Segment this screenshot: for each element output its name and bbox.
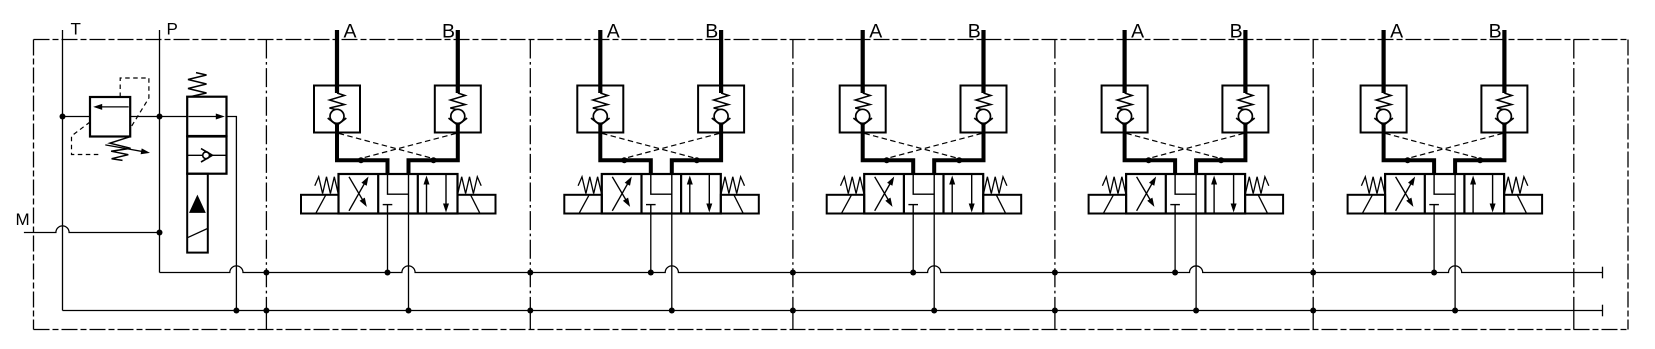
wire: tank rail (from T) (63, 310, 1603, 312)
junction: interface 2 on T-rail (527, 308, 533, 314)
pilot line (dashed) B1 to A side (361, 133, 456, 158)
shock valve A2 spring (593, 93, 608, 110)
pilot line (dashed) B2 to A side (625, 133, 720, 158)
shock valve A3 spring (855, 93, 870, 110)
DV3 left solenoid slash (842, 195, 852, 213)
shock valve B4 body (1222, 86, 1268, 133)
junction: interface 1 on T-rail (263, 308, 269, 314)
DV4 left solenoid slash (1103, 195, 1113, 213)
DV1 left return spring (315, 177, 338, 194)
wire: B3 channel to valve (thick) (934, 124, 983, 175)
unloader U1 body (position box) (187, 97, 226, 136)
pilot line (dashed) A3 to B side (864, 133, 958, 158)
section interface line 2 (dash-dot) (529, 40, 531, 311)
shock valve B5 poppet ball (1497, 109, 1511, 123)
svg-text:P: P (167, 19, 178, 38)
DV5 position divider right (1463, 174, 1465, 214)
DV3 crossed-flow position arrows (875, 182, 892, 211)
junction: interface 5 on P-rail (1310, 270, 1316, 276)
DV4 right solenoid slash (1258, 195, 1267, 213)
shock valve A4 body (1102, 86, 1148, 133)
junction: DV2 feed on pressure rail (648, 270, 654, 276)
section interface line 3 (dash-dot) (792, 40, 794, 311)
DV5 parallel-flow position arrows (1472, 182, 1474, 214)
shock valve A3 seat (853, 118, 872, 125)
port A line (section 3) (861, 30, 865, 93)
port B line (section 3) (981, 30, 985, 93)
DV4 right solenoid box (1245, 195, 1283, 214)
DV1 right solenoid box (458, 195, 496, 214)
svg-text:A: A (1390, 21, 1403, 43)
check valve CV1 through line (187, 154, 226, 156)
wire: B4 channel to valve (thick) (1196, 124, 1245, 175)
directional valve DV3 body (864, 174, 983, 214)
section interface line 1 (dash-dot) (265, 40, 267, 311)
enclosure right boundary (dash-dot) (1627, 40, 1629, 330)
junction: interface 2 on P-rail (527, 270, 533, 276)
wire: A4 channel to valve (thick) (1125, 124, 1176, 175)
shock valve B3 seat (974, 118, 993, 125)
shock valve B3 poppet ball (977, 109, 991, 123)
port B line (section 2) (719, 30, 723, 93)
DV5 right return spring (1504, 177, 1527, 194)
DV5 crossed-flow position arrows (1396, 182, 1413, 211)
svg-text:B: B (968, 21, 981, 43)
junction: DV2 return on tank rail (669, 308, 675, 314)
pilot line (dashed) B4 to A side (1149, 133, 1244, 158)
junction: pilot tap on B5 channel (1477, 157, 1483, 163)
shock valve A3 body (840, 86, 886, 133)
shock valve B3 body (961, 86, 1007, 133)
DV1 right solenoid slash (471, 195, 480, 213)
wire: DV1 P feed from pressure rail (387, 214, 389, 273)
DV2 left return spring (578, 177, 601, 194)
wire: tank port T line (62, 30, 64, 311)
pilot line (dashed) A2 to B side (602, 133, 696, 158)
DV1 crossed-flow position arrows (349, 182, 366, 211)
junction: interface 4 on T-rail (1052, 308, 1058, 314)
DV2 crossed-flow position arrows (612, 182, 629, 211)
svg-text:T: T (71, 19, 81, 38)
DV2 right solenoid slash (734, 195, 743, 213)
junction: pilot tap on A4 channel (1146, 157, 1152, 163)
pilot actuator: hydraulic pilot triangle (189, 195, 206, 213)
DV2 parallel-flow position arrows (689, 182, 691, 214)
DV3 position divider right (942, 174, 944, 214)
pilot actuator body (below check valve) (187, 174, 208, 253)
junction: DV3 return on tank rail (931, 308, 937, 314)
DV3 right solenoid box (983, 195, 1021, 214)
shock valve A2 poppet ball (593, 109, 607, 123)
wire: DV5 P feed from pressure rail (1433, 214, 1435, 273)
DV5 left solenoid slash (1362, 195, 1372, 213)
junction: interface 3 on P-rail (790, 270, 796, 276)
port A line (section 1) (335, 30, 339, 93)
DV2 right return spring (721, 177, 744, 194)
junction: pilot tap on B1 channel (431, 157, 437, 163)
DV2 position divider right (680, 174, 682, 214)
junction: relief/unloader line on P line (157, 114, 163, 120)
wire: DV4 tank return (hops pressure rail) (1195, 214, 1197, 311)
directional valve DV2 body (602, 174, 721, 214)
shock valve B5 body (1481, 86, 1527, 133)
DV4 right return spring (1245, 177, 1268, 194)
wire: DV2 P feed from pressure rail (650, 214, 652, 273)
DV1 left solenoid slash (316, 195, 326, 213)
wire: B5 channel to valve (thick) (1455, 124, 1504, 175)
wire: B2 channel to valve (thick) (672, 124, 721, 175)
shock valve A1 seat (328, 118, 347, 125)
shock valve B1 body (435, 86, 481, 133)
tank rail end plug (1602, 305, 1604, 317)
svg-text:A: A (607, 21, 620, 43)
pilot line (dashed) B3 to A side (887, 133, 982, 158)
wire: gauge port M line (hops over T line) (24, 226, 160, 233)
junction: pilot tap on A2 channel (621, 157, 627, 163)
shock valve B1 spring (450, 93, 465, 110)
svg-text:B: B (1230, 21, 1243, 43)
shock valve A3 poppet ball (856, 109, 870, 123)
shock valve A2 seat (591, 118, 610, 125)
svg-text:B: B (442, 21, 455, 43)
relief valve RV1 body (90, 97, 130, 137)
DV1 position divider left (377, 174, 379, 214)
DV4 left solenoid box (1089, 195, 1127, 214)
svg-text:A: A (344, 21, 357, 43)
pilot actuator: proportional slash (187, 228, 208, 237)
pilot line (dashed) A4 to B side (1126, 133, 1220, 158)
junction: pilot tap on B4 channel (1218, 157, 1224, 163)
pilot line (dashed) B5 to A side (1408, 133, 1503, 158)
port A line (section 4) (1122, 30, 1126, 93)
DV3 position divider left (903, 174, 905, 214)
DV2 left solenoid box (564, 195, 602, 214)
shock valve A4 poppet ball (1118, 109, 1132, 123)
DV5 left solenoid box (1348, 195, 1386, 214)
DV3 left return spring (841, 177, 864, 194)
directional valve DV1 body (339, 174, 458, 214)
DV3 parallel-flow position arrows (951, 182, 953, 214)
pilot line (dashed) relief drain (72, 122, 99, 155)
shock valve B2 body (698, 86, 744, 133)
shock valve B3 spring (976, 93, 991, 110)
junction: DV4 return on tank rail (1193, 308, 1199, 314)
junction: unloader outlet on tank rail (233, 308, 239, 314)
pilot line (dashed) A1 to B side (339, 133, 433, 158)
junction: DV3 feed on pressure rail (910, 270, 916, 276)
DV1 centre position: A/B to tank, P blocked (388, 175, 409, 194)
DV2 left solenoid slash (579, 195, 589, 213)
directional valve DV5 body (1385, 174, 1504, 214)
section interface line 4 (dash-dot) (1054, 40, 1056, 311)
svg-text:B: B (705, 21, 718, 43)
shock valve B1 seat (449, 118, 468, 125)
DV5 right solenoid box (1504, 195, 1542, 214)
DV1 left solenoid box (301, 195, 339, 214)
unloader U1 flow arrow (189, 116, 219, 118)
DV2 right solenoid box (721, 195, 759, 214)
shock valve A5 body (1361, 86, 1407, 133)
shock valve A2 body (577, 86, 623, 133)
shock valve B2 poppet ball (714, 109, 728, 123)
junction: pilot tap on A3 channel (884, 157, 890, 163)
junction: M line to P line (157, 230, 163, 236)
port A line (section 2) (598, 30, 602, 93)
svg-text:A: A (1131, 21, 1144, 43)
port B line (section 1) (456, 30, 460, 93)
wire: A1 channel to valve (thick) (337, 124, 388, 175)
junction: pilot tap on B2 channel (694, 157, 700, 163)
DV4 parallel-flow position arrows (1213, 182, 1215, 214)
wire: relief valve to P line / P to unloader (130, 116, 187, 118)
DV3 left solenoid box (827, 195, 865, 214)
shock valve A5 spring (1376, 93, 1391, 110)
junction: pilot tap on A1 channel (358, 157, 364, 163)
DV5 centre position: A/B to tank, P blocked (1434, 175, 1455, 194)
wire: A5 channel to valve (thick) (1384, 124, 1435, 175)
DV3 right solenoid slash (996, 195, 1005, 213)
DV3 right return spring (984, 177, 1007, 194)
pressure rail end plug (1602, 267, 1604, 279)
junction: DV4 feed on pressure rail (1172, 270, 1178, 276)
junction: pilot tap on B3 channel (956, 157, 962, 163)
junction: interface 1 on P-rail (263, 270, 269, 276)
shock valve B2 seat (712, 118, 731, 125)
unloader U1 spring (188, 73, 207, 97)
wire: DV5 tank return (hops pressure rail) (1454, 214, 1456, 311)
junction: pilot tap on A5 channel (1405, 157, 1411, 163)
svg-text:M: M (16, 210, 30, 229)
check valve CV1 poppet (203, 152, 210, 159)
DV5 left return spring (1361, 177, 1384, 194)
relief valve adjustable spring (110, 137, 131, 161)
relief valve adjustment arrow (105, 145, 144, 152)
wire: T line to relief valve (63, 116, 91, 118)
enclosure left boundary (dash-dot) (33, 40, 35, 330)
enclosure bottom boundary (dash-dot) (34, 329, 1629, 331)
wire: DV3 P feed from pressure rail (912, 214, 914, 273)
junction: DV1 return on tank rail (406, 308, 412, 314)
junction: DV5 feed on pressure rail (1431, 270, 1437, 276)
DV4 left return spring (1102, 177, 1125, 194)
port A line (section 5) (1381, 30, 1385, 93)
DV1 parallel-flow position arrows (426, 182, 428, 214)
port B line (section 5) (1502, 30, 1506, 93)
wire: DV1 tank return (hops pressure rail) (408, 214, 410, 311)
shock valve A1 body (314, 86, 360, 133)
junction: interface 5 on T-rail (1310, 308, 1316, 314)
DV4 position divider left (1165, 174, 1167, 214)
check valve CV1 seat (201, 149, 212, 162)
check valve CV1 body (187, 137, 226, 174)
junction: interface 3 on T-rail (790, 308, 796, 314)
DV5 position divider left (1424, 174, 1426, 214)
pilot line (dashed) A5 to B side (1385, 133, 1479, 158)
shock valve B5 seat (1495, 118, 1514, 125)
junction: DV1 feed on pressure rail (385, 270, 391, 276)
wire: pressure port P line (159, 30, 161, 273)
shock valve B2 spring (714, 93, 729, 110)
DV2 position divider left (640, 174, 642, 214)
DV1 right return spring (458, 177, 481, 194)
junction: interface 4 on P-rail (1052, 270, 1058, 276)
shock valve B1 poppet ball (451, 109, 465, 123)
wire: DV3 tank return (hops pressure rail) (933, 214, 935, 311)
shock valve A4 spring (1117, 93, 1132, 110)
DV1 position divider right (417, 174, 419, 214)
relief valve RV1 flow arrow (to tank) (99, 106, 129, 108)
svg-text:B: B (1489, 21, 1502, 43)
wire: A3 channel to valve (thick) (863, 124, 914, 175)
wire: B1 channel to valve (thick) (409, 124, 458, 175)
port B line (section 4) (1243, 30, 1247, 93)
section interface line 5 (dash-dot) (1312, 40, 1314, 311)
shock valve A5 poppet ball (1377, 109, 1391, 123)
shock valve B4 seat (1236, 118, 1255, 125)
shock valve A1 poppet ball (330, 109, 344, 123)
DV2 centre position: A/B to tank, P blocked (651, 175, 672, 194)
DV4 crossed-flow position arrows (1137, 182, 1154, 211)
wire: DV2 tank return (hops pressure rail) (671, 214, 673, 311)
DV4 centre position: A/B to tank, P blocked (1175, 175, 1196, 194)
shock valve B4 spring (1238, 93, 1253, 110)
shock valve A5 seat (1374, 118, 1393, 125)
shock valve B5 spring (1497, 93, 1512, 110)
wire: pressure rail (from P, hops over non-connecting drops) (160, 266, 1603, 273)
wire: A2 channel to valve (thick) (600, 124, 651, 175)
DV5 right solenoid slash (1517, 195, 1526, 213)
svg-text:A: A (869, 21, 882, 43)
junction: DV5 return on tank rail (1452, 308, 1458, 314)
DV4 position divider right (1204, 174, 1206, 214)
junction: relief line on T line (60, 114, 66, 120)
section interface line 6 (dash-dot) (1573, 40, 1575, 311)
shock valve B4 poppet ball (1238, 109, 1252, 123)
shock valve A1 spring (330, 93, 345, 110)
enclosure top boundary (dash-dot) (34, 39, 1629, 41)
wire: DV4 P feed from pressure rail (1174, 214, 1176, 273)
DV3 centre position: A/B to tank, P blocked (913, 175, 934, 194)
pilot line (dashed) relief top (120, 78, 149, 128)
shock valve A4 seat (1115, 118, 1134, 125)
directional valve DV4 body (1126, 174, 1245, 214)
wire: unloader outlet to tank rail (227, 117, 237, 311)
